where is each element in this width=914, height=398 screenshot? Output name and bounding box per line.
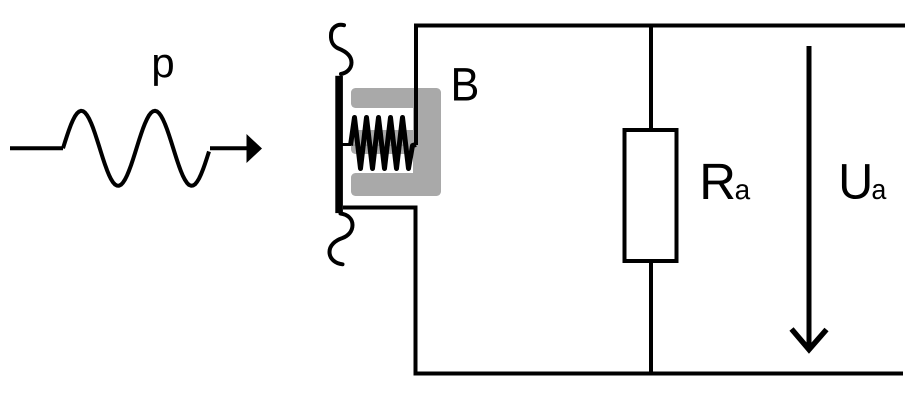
wire sound-wave lead-in [10,146,63,150]
wire membrane-to-coil connector [342,143,351,146]
arrowhead of sound-wave arrow [247,134,263,163]
resistor Ra [625,130,677,261]
wire resistor to bottom rail [649,261,653,374]
wire coil to top rail [416,26,905,146]
label Ua [842,164,870,199]
membrane (diaphragm) [335,76,343,213]
magnet axis dashed centerline [352,144,413,146]
magnet (pole pieces) [351,88,441,196]
label B (flux density) [454,68,477,100]
wire top rail to resistor [649,26,653,131]
sound pressure sine wave [63,111,209,186]
membrane break squiggle top [331,25,352,74]
voltage arrow Ua [807,46,812,346]
wire membrane bottom to bottom rail [343,208,903,374]
wire sound-wave lead-out [210,146,247,150]
label Ra [703,164,733,199]
coil L1 (voice coil) [351,118,417,169]
label p [154,55,173,86]
membrane break squiggle bottom [330,214,353,265]
